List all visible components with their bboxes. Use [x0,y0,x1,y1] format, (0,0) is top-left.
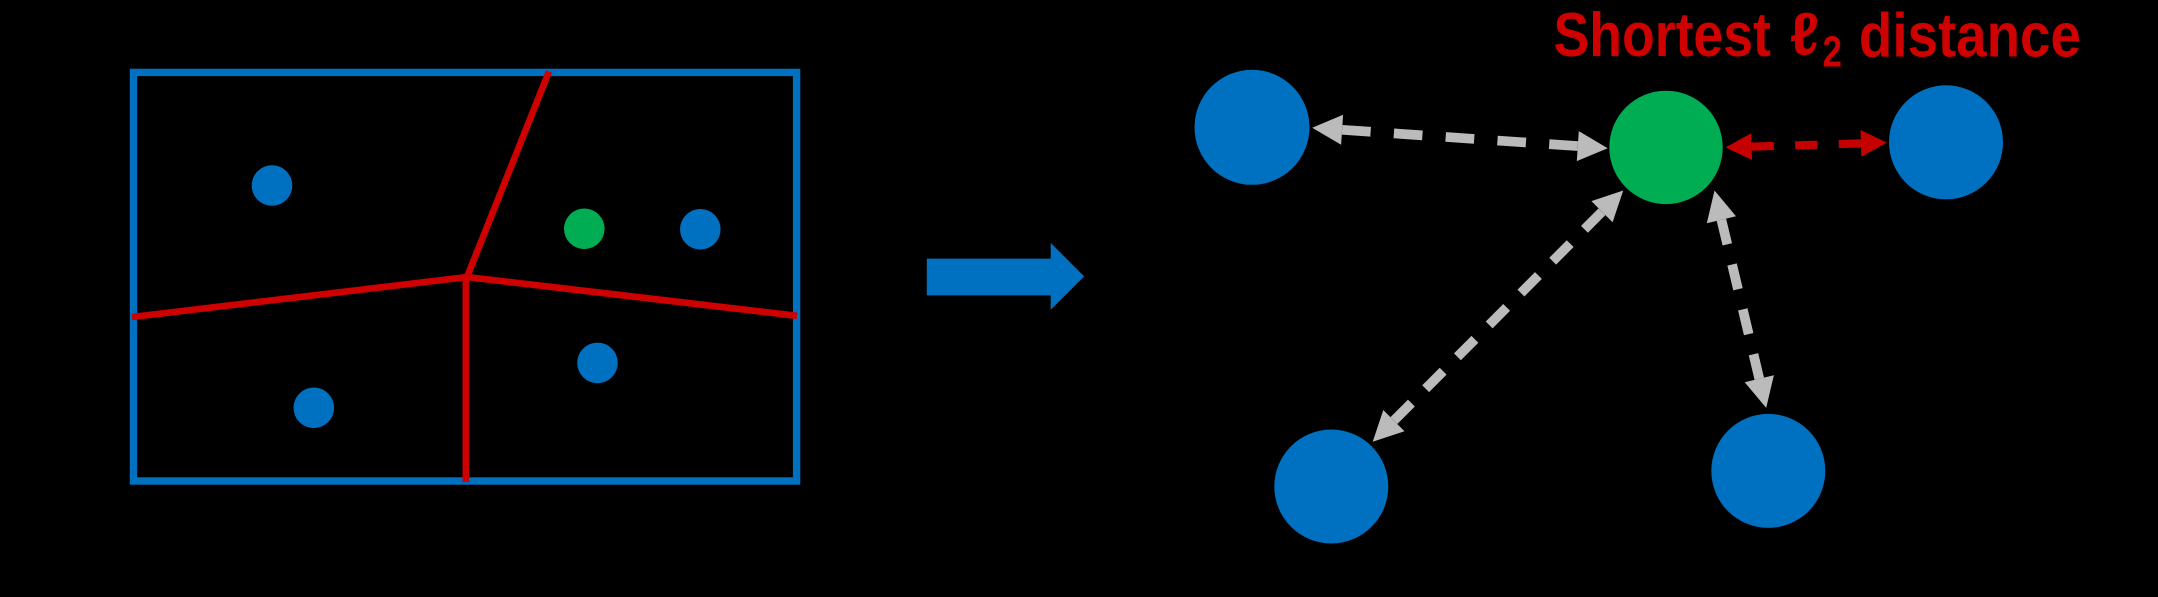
voronoi edge: right [467,277,797,316]
site point green [564,209,605,250]
node: green query circle [1609,91,1722,204]
site point blue right of green [680,209,721,250]
site point blue bottom-right cell [577,343,618,384]
svg-text:Shortest: Shortest [1554,1,1771,70]
svg-text:2: 2 [1823,28,1843,77]
node: top-left blue circle [1195,70,1310,185]
node: top-right blue circle [1889,85,2003,199]
voronoi edge: left [132,277,467,317]
red dashed double arrow: green to top-right (shortest) [1726,130,1887,160]
site point blue bottom-left cell [294,388,335,429]
node: bottom-left blue circle [1274,430,1388,544]
node: bottom-right blue circle [1711,414,1825,528]
site point blue top-left [252,165,293,206]
gray dashed double arrow: top-left to green [1312,115,1608,161]
svg-text:distance: distance [1859,2,2081,71]
voronoi edge: top diagonal [467,72,549,278]
gray dashed double arrow: bottom-left to green (diagonal) [1373,191,1624,442]
gray dashed double arrow: green to bottom-right (near vertical) [1707,191,1774,408]
voronoi bounding rectangle [134,72,797,481]
svg-text:ℓ: ℓ [1790,1,1819,68]
big blue block arrow [927,243,1084,310]
caption: Shortest l2 distance [1554,1,2081,77]
voronoi edge: vertical [462,277,469,482]
